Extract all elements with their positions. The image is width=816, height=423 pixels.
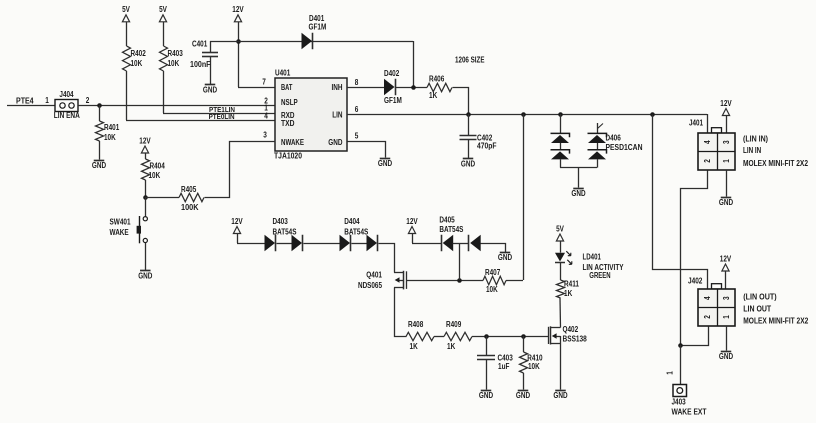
svg-text:LIN ENA: LIN ENA [54,111,80,120]
svg-text:BAT54S: BAT54S [344,227,369,236]
node junction J401pin2/J402pin2/J403 [678,343,683,348]
svg-text:12V: 12V [139,136,151,145]
connector J401 MOLEX MINI-FIT 2X2 [689,119,735,171]
svg-text:1206 SIZE: 1206 SIZE [455,55,485,64]
wire LIN junction down to J402 pin4 [653,115,708,290]
svg-text:GND: GND [516,391,530,400]
node junction D405 tap/gate/R407 [457,278,462,283]
svg-text:6: 6 [355,105,359,114]
wire J404 pin2 to NSLP bus [78,105,275,107]
svg-text:GND: GND [328,138,342,147]
power 5V for LD401 [556,224,564,241]
power 12V for J402 [720,254,732,271]
svg-text:BAT: BAT [281,83,292,92]
pin 2 of J404 [86,96,90,105]
resistor R410 [520,336,544,390]
svg-text:TJA1020: TJA1020 [274,151,302,160]
wire R406 to LIN line [453,88,469,115]
svg-text:12V: 12V [406,217,418,226]
svg-text:4: 4 [703,140,712,144]
svg-text:5V: 5V [556,224,564,233]
svg-text:BAT54S: BAT54S [439,225,464,234]
jumper J404 [54,90,80,120]
wire LIN pin6 to J401 [347,114,707,116]
svg-text:8: 8 [355,78,359,87]
power 12V for J401 [720,99,732,116]
svg-text:4: 4 [703,296,712,300]
LED LD401 green [555,241,624,280]
svg-text:D403: D403 [273,217,289,226]
pin 3 [263,130,267,139]
svg-text:12V: 12V [720,99,732,108]
svg-text:GND: GND [378,159,392,168]
power 12V for BAT [232,5,244,22]
capacitor C403 [477,336,513,390]
svg-text:MOLEX MINI-FIT 2X2: MOLEX MINI-FIT 2X2 [743,159,808,168]
svg-text:GND: GND [479,391,493,400]
svg-text:1: 1 [45,96,49,105]
svg-text:GND: GND [203,86,217,95]
ground below C402 [461,159,475,169]
svg-text:R407: R407 [485,268,501,277]
ground below Q402 [553,391,567,400]
svg-text:R403: R403 [168,49,184,58]
svg-text:PTE1LIN: PTE1LIN [209,105,235,114]
resistor R407 [483,268,506,294]
ground below D406 [571,189,585,198]
resistor R402 [123,22,147,120]
note 1206 SIZE [455,55,485,64]
resistor R409 [444,320,472,351]
wire 12V to J401 pin3 [726,116,728,134]
svg-text:LD401: LD401 [583,252,602,261]
diode D403 BAT54S [265,217,303,251]
node junction D406/LIN [558,112,563,117]
svg-text:GND: GND [719,352,733,361]
svg-text:R408: R408 [408,320,424,329]
node junction J402-branch/LIN [650,112,655,117]
svg-text:(LIN IN): (LIN IN) [743,134,768,143]
svg-text:1K: 1K [564,289,572,298]
net label PTE0LIN [209,112,235,121]
wire SW401 to ground [145,243,147,270]
svg-text:3: 3 [722,140,731,144]
svg-text:5: 5 [355,132,359,141]
svg-text:C401: C401 [192,40,208,49]
node junction R406/LIN [466,112,471,117]
power 5V for R403 [159,5,167,22]
svg-text:GND: GND [498,253,512,262]
wire D402 to R406 [396,87,427,89]
wire LIN drop to R407 [523,114,525,280]
svg-text:NWAKE: NWAKE [281,138,305,147]
svg-text:R402: R402 [131,49,147,58]
svg-text:2: 2 [703,315,712,319]
label (LIN IN) [743,134,768,143]
svg-text:D406: D406 [606,134,622,143]
svg-text:D402: D402 [384,69,400,78]
svg-text:10K: 10K [486,285,498,294]
node PTE4 net label [16,96,34,105]
label LIN IN [743,146,761,155]
svg-text:D404: D404 [344,217,360,226]
pin 4 [264,112,268,121]
svg-text:BAT54S: BAT54S [273,227,298,236]
wire J401 pin2 branch [681,171,708,346]
svg-text:12V: 12V [231,217,243,226]
label MOLEX MINI-FIT 2X2 for J402 [743,316,808,325]
svg-text:GND: GND [719,198,733,207]
node junction C403 [484,334,489,339]
label LIN OUT [743,304,771,313]
svg-text:10K: 10K [528,362,540,371]
pin 7 [262,77,266,86]
ground below J401 [719,198,733,207]
svg-text:R411: R411 [564,279,579,288]
svg-text:GND: GND [138,271,152,280]
svg-text:1K: 1K [447,342,455,351]
svg-text:1K: 1K [410,342,418,351]
resistor R411 [557,263,580,328]
resistor R408 [406,320,434,351]
svg-text:R401: R401 [104,123,120,132]
svg-text:NDS065: NDS065 [358,281,382,290]
wire 12V to D403 [237,234,265,244]
power 5V for R402 [122,5,130,22]
svg-text:R405: R405 [181,185,197,194]
svg-text:1K: 1K [429,91,437,100]
wire J402 pin1 to ground [726,326,728,351]
svg-text:5V: 5V [159,5,167,14]
svg-text:GF1M: GF1M [384,96,402,105]
node junction J404/R401 [97,103,102,108]
net label PTE1LIN [209,105,235,114]
wire R409 to Q402 gate [472,336,548,338]
connector J402 MOLEX MINI-FIT 2X2 [688,277,735,326]
capacitor C401 [190,40,218,85]
wire 12V to D405 [412,234,441,244]
power 12V for D403 [231,217,243,234]
svg-text:J401: J401 [689,119,703,128]
wire R408 to R409 [434,336,444,338]
wire R407 to LIN drop [506,280,523,282]
svg-text:J404: J404 [59,90,74,99]
node junction D401/INH [411,85,416,90]
wire J401 pin1 to ground [726,170,728,197]
diode D402 GF1M [384,69,402,105]
svg-text:GND: GND [553,391,567,400]
node junction R404/R405/SW401 [143,195,148,200]
node junction R407-drop/LIN [521,112,526,117]
ground for D405 [498,253,512,263]
label MOLEX MINI-FIT 2X2 for J401 [743,159,808,168]
svg-text:MOLEX MINI-FIT 2X2: MOLEX MINI-FIT 2X2 [743,316,808,325]
svg-text:LIN IN: LIN IN [743,146,761,155]
resistor R404 [142,153,166,197]
label (LIN OUT) [743,293,777,302]
resistor R401 [96,105,120,160]
op-amp U401 TJA1020 LIN transceiver IC [274,69,347,161]
svg-text:3: 3 [722,296,731,300]
svg-text:D405: D405 [439,215,455,224]
resistor R403 [160,22,184,113]
pin 5 [355,132,359,141]
diode D405 BAT54S [439,215,480,251]
wire Q402 source to ground [560,344,562,390]
svg-text:2: 2 [86,96,90,105]
ground below C403 [479,391,493,400]
node junction R410 [521,334,526,339]
wire D405 to ground [481,244,506,253]
svg-text:1: 1 [666,371,675,375]
switch SW401 WAKE [110,197,148,243]
wire D401 line drop to INH node [413,41,415,87]
svg-text:470pF: 470pF [477,142,497,151]
wire junction to J403 [680,345,682,385]
wire J402 pin2 to junction [681,327,709,346]
svg-text:3: 3 [263,130,267,139]
svg-text:U401: U401 [275,69,291,78]
pin 6 [355,105,359,114]
wire D405 center tap [459,243,461,280]
wire INH pin8 to D402 [347,87,384,89]
transistor Q402 BSS138 N-MOSFET [549,325,588,344]
power 12V for D405 [406,217,418,234]
svg-text:LIN OUT: LIN OUT [743,304,771,313]
svg-text:Q402: Q402 [563,325,579,334]
transistor Q401 NDS065 P-MOSFET [358,271,407,291]
wire D404 to Q401 drain [379,244,395,273]
svg-text:INH: INH [332,83,343,92]
wire D403 to D404 [304,243,340,245]
svg-text:WAKE EXT: WAKE EXT [672,407,707,416]
wire PTE1LIN from R403 to RXD pin1 [163,113,275,115]
svg-text:12V: 12V [232,5,244,14]
ground below C401 [203,85,217,95]
svg-text:LIN: LIN [332,110,342,119]
svg-text:12V: 12V [720,254,732,263]
wire 12V to J402 pin3 [725,271,727,289]
capacitor C402 [460,114,497,158]
pin 1 of J403 [666,371,675,375]
svg-text:WAKE: WAKE [110,228,130,237]
diode D406 PESD1CAN TVS array [551,114,643,188]
svg-text:GREEN: GREEN [589,271,610,280]
svg-text:R406: R406 [429,74,445,83]
wire PTE0LIN from R402 to TXD pin4 [126,120,275,122]
svg-text:R409: R409 [446,320,462,329]
wire Q401 source down [395,288,407,337]
svg-text:10K: 10K [168,59,180,68]
wire C401 top to D401 line [210,41,413,43]
svg-text:SW401: SW401 [110,217,131,226]
svg-text:Q401: Q401 [366,271,382,280]
svg-text:4: 4 [264,112,268,121]
ground below J402 [719,352,733,361]
svg-text:NSLP: NSLP [281,98,298,107]
wire NWAKE pin3 from R405 [205,142,276,198]
node junction 12V/C401/D401 [236,39,241,44]
svg-text:R404: R404 [150,161,166,170]
svg-text:TXD: TXD [281,119,295,128]
svg-text:PTE4: PTE4 [16,96,34,105]
svg-text:GND: GND [461,159,475,168]
connector J403 WAKE EXT [672,385,707,417]
diode D404 BAT54S [340,217,378,251]
svg-text:1: 1 [722,159,731,163]
ground below R410 [516,391,530,400]
wire Q401 gate to R407 node [407,280,483,282]
resistor R405 [145,185,204,212]
ground below R401 [92,161,106,171]
svg-text:J402: J402 [688,277,703,286]
svg-text:1: 1 [722,315,731,319]
svg-text:GND: GND [92,161,106,170]
wire GND pin5 [348,142,386,158]
pin 1 [264,103,268,112]
svg-text:5V: 5V [122,5,130,14]
svg-text:GND: GND [571,189,585,198]
pin 2 [264,96,268,105]
svg-text:PESD1CAN: PESD1CAN [606,143,643,152]
wire 12V down to BAT pin7 [238,22,275,88]
svg-text:GF1M: GF1M [309,22,327,31]
svg-text:J403: J403 [672,397,687,406]
svg-text:10K: 10K [104,133,116,142]
resistor R406 [427,74,452,100]
ground for pin5 [378,159,392,168]
svg-text:(LIN OUT): (LIN OUT) [743,293,777,302]
pin 1 of J404 [45,96,49,105]
wire LIN to J401 pin4 [707,114,709,133]
svg-text:100nF: 100nF [190,60,211,69]
svg-text:BSS138: BSS138 [563,334,588,343]
svg-text:7: 7 [262,77,266,86]
pin 8 [355,78,359,87]
svg-text:2: 2 [703,159,712,163]
wire PTE4 to J404 pin1 [7,105,55,107]
svg-text:1uF: 1uF [498,362,509,371]
ground below SW401 [138,271,152,281]
svg-text:10K: 10K [149,171,161,180]
power 12V for R404 [139,136,151,153]
diode D401 GF1M [302,14,327,49]
svg-text:10K: 10K [131,59,143,68]
svg-text:100K: 100K [181,203,199,212]
